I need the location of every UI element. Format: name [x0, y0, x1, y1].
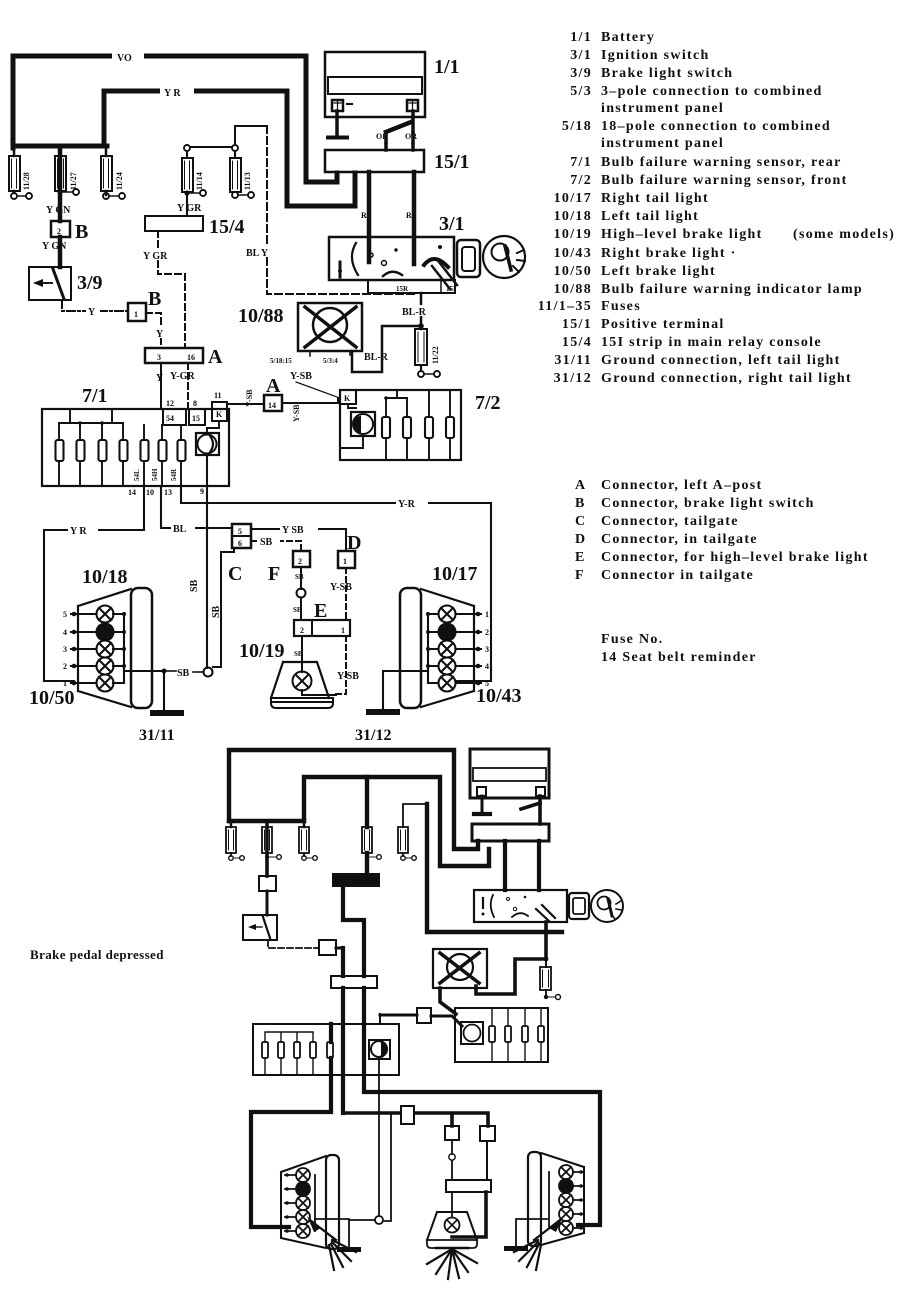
svg-text:K: K — [216, 410, 223, 419]
connector strip A — [145, 346, 223, 368]
fuse2 b — [262, 821, 281, 876]
wire Y-R long — [181, 486, 491, 681]
wire Y-GN to switch — [58, 237, 63, 267]
svg-text:OR: OR — [376, 132, 388, 141]
battery minus post — [328, 111, 347, 138]
svg-text:15/1: 15/1 — [562, 317, 592, 332]
svg-text:High–level brake light: High–level brake light — [601, 227, 763, 242]
ground2 brush 10/19 — [427, 1248, 477, 1279]
connector B (1) — [128, 288, 161, 321]
svg-text:Y R: Y R — [164, 88, 181, 99]
svg-text:instrument panel: instrument panel — [601, 136, 724, 151]
svg-text:10/19: 10/19 — [554, 227, 592, 242]
svg-text:SB: SB — [260, 537, 273, 548]
svg-text:7/2: 7/2 — [570, 173, 592, 188]
fuse 11/13 — [230, 145, 254, 198]
svg-text:10/88: 10/88 — [554, 282, 592, 297]
wire Y-SB (K to A14) — [227, 389, 264, 407]
7/1 resistors — [56, 440, 186, 461]
fuse2 a — [226, 827, 244, 860]
svg-text:Y-SB: Y-SB — [330, 582, 352, 593]
legend fuse note — [601, 632, 757, 665]
svg-text:15: 15 — [192, 414, 200, 423]
svg-text:SB: SB — [295, 573, 304, 581]
svg-text:SB: SB — [189, 579, 200, 592]
wire SB (C6 down to ground junction) — [211, 548, 234, 667]
svg-text:11/22: 11/22 — [431, 346, 440, 364]
svg-text:31/11: 31/11 — [139, 727, 175, 744]
fuse 11/27 — [55, 146, 79, 221]
svg-text:15R: 15R — [396, 285, 409, 293]
battery 1/1 — [325, 52, 460, 117]
svg-text:3–pole connection to combined: 3–pole connection to combined — [601, 84, 823, 99]
wire Y-R left to 10/18 — [44, 486, 144, 681]
fuse2 e — [398, 804, 427, 860]
svg-text:11/13: 11/13 — [243, 172, 252, 190]
svg-text:14: 14 — [268, 401, 276, 410]
svg-text:3: 3 — [157, 353, 161, 362]
wire Y-GR dashed — [142, 231, 185, 348]
ground2 right lamp — [504, 1219, 547, 1251]
svg-text:13: 13 — [164, 488, 172, 497]
connector2 C — [319, 940, 343, 976]
svg-text:Connector, tailgate: Connector, tailgate — [601, 514, 739, 529]
svg-text:(some models): (some models) — [793, 227, 895, 242]
svg-text:16: 16 — [187, 353, 195, 362]
10/17 pins and bus — [426, 610, 489, 688]
svg-text:10: 10 — [146, 488, 154, 497]
wire2 3/9 to C — [268, 940, 319, 948]
strip 15/4 — [145, 203, 245, 238]
svg-text:1: 1 — [343, 557, 347, 566]
svg-text:Left brake light: Left brake light — [601, 264, 716, 279]
svg-text:SB: SB — [294, 650, 303, 658]
svg-text:31/11: 31/11 — [554, 353, 592, 368]
tail light2 left — [281, 1155, 339, 1249]
wires2 strip to 7/1 — [343, 988, 364, 1024]
wire Y-GR below A — [170, 363, 195, 409]
wire Y-SB (A14 to 7/2) — [282, 371, 341, 422]
sensor2 7/2 — [455, 1008, 548, 1062]
svg-text:15/4: 15/4 — [209, 216, 245, 238]
svg-text:10/19: 10/19 — [239, 640, 285, 662]
wire BL-Y — [235, 126, 418, 294]
7/1 top cells 54/15/K — [163, 391, 227, 425]
brake light2 10/19 — [427, 1212, 477, 1248]
svg-text:31/12: 31/12 — [355, 727, 391, 744]
svg-text:6: 6 — [238, 539, 242, 548]
svg-text:10/17: 10/17 — [554, 191, 592, 206]
svg-text:Connector, brake light switch: Connector, brake light switch — [601, 496, 815, 511]
wire Y-SB (C5 to D) — [251, 523, 346, 551]
svg-text:Bulb failure warning sensor, f: Bulb failure warning sensor, front — [601, 173, 848, 188]
svg-text:11/1–35: 11/1–35 — [538, 299, 592, 314]
key2 — [569, 890, 623, 922]
wire BL to C — [161, 486, 232, 535]
svg-text:1: 1 — [63, 679, 67, 688]
svg-text:3/1: 3/1 — [439, 213, 465, 235]
svg-text:Brake light switch: Brake light switch — [601, 66, 733, 81]
tail light2 left bulbs — [285, 1168, 315, 1238]
svg-text:5/3:4: 5/3:4 — [323, 357, 338, 365]
svg-text:2: 2 — [63, 662, 67, 671]
svg-text:Left tail light: Left tail light — [601, 209, 699, 224]
svg-text:Ground connection, right tail: Ground connection, right tail light — [601, 371, 852, 386]
ground 31/11 — [139, 671, 184, 744]
svg-text:instrument panel: instrument panel — [601, 101, 724, 116]
svg-text:D: D — [347, 532, 361, 554]
tail light 10/18 — [29, 566, 152, 709]
svg-text:54: 54 — [166, 414, 174, 423]
ground 31/12 — [355, 671, 428, 744]
svg-text:VO: VO — [117, 53, 132, 64]
ground2 left lamp — [315, 1219, 361, 1252]
svg-text:A: A — [575, 478, 586, 493]
svg-text:Brake pedal depressed: Brake pedal depressed — [30, 947, 164, 962]
7/2 internal wiring — [384, 390, 450, 460]
brush2 left lamp — [307, 1216, 356, 1270]
wire2 Y-R equivalent — [304, 777, 489, 866]
svg-text:15I strip in main relay consol: 15I strip in main relay console — [601, 335, 822, 350]
svg-text:3/9: 3/9 — [570, 66, 592, 81]
svg-text:OR: OR — [405, 132, 417, 141]
connector2 B — [259, 853, 276, 915]
svg-text:15I: 15I — [446, 285, 456, 293]
10/18 pins and bus — [63, 610, 126, 688]
wire Y (3/9 to B1) — [62, 300, 128, 318]
legend connector list — [575, 478, 869, 583]
brake light switch 3/9 — [29, 267, 103, 300]
svg-text:B: B — [75, 221, 88, 243]
svg-text:C: C — [228, 563, 242, 585]
svg-text:Ignition switch: Ignition switch — [601, 48, 710, 63]
wire2 SB relay — [349, 1059, 391, 1224]
svg-text:1: 1 — [341, 626, 345, 635]
fuse2 11/22 — [540, 959, 561, 1000]
7/1 bottom pin labels — [128, 468, 204, 497]
svg-text:10/18: 10/18 — [554, 209, 592, 224]
svg-text:Y: Y — [88, 307, 96, 318]
svg-text:14: 14 — [128, 488, 136, 497]
svg-text:10/50: 10/50 — [554, 264, 592, 279]
strip2 E — [446, 1180, 491, 1237]
svg-text:Y R: Y R — [70, 526, 87, 537]
svg-text:7/2: 7/2 — [475, 392, 501, 414]
svg-text:Y-SB: Y-SB — [337, 671, 359, 682]
7/1 relay — [196, 421, 219, 455]
svg-text:3: 3 — [485, 645, 489, 654]
svg-text:Connector, left A–post: Connector, left A–post — [601, 478, 762, 493]
svg-text:Y-SB: Y-SB — [245, 389, 254, 407]
svg-text:1: 1 — [485, 610, 489, 619]
svg-text:BL: BL — [173, 524, 187, 535]
svg-text:10/50: 10/50 — [29, 687, 75, 709]
svg-text:2: 2 — [485, 628, 489, 637]
svg-text:Bulb failure warning indicator: Bulb failure warning indicator lamp — [601, 282, 863, 297]
fuse2 d — [362, 777, 381, 874]
wire SB (F to E) — [293, 567, 306, 620]
svg-text:Y: Y — [156, 373, 164, 384]
wire Y-SB (below E) dashed — [333, 636, 359, 694]
wire SB (E to 10/19) — [294, 636, 303, 672]
svg-text:Connector, in tailgate: Connector, in tailgate — [601, 532, 758, 547]
high-level brake light 10/19 — [239, 640, 336, 708]
10/18 bulbs — [97, 606, 114, 692]
tail light2 right — [528, 1152, 584, 1246]
svg-text:Y GN: Y GN — [42, 241, 67, 252]
svg-text:SB: SB — [211, 605, 222, 618]
wire2 left lamp feed — [251, 1024, 331, 1227]
svg-text:1/1: 1/1 — [434, 56, 460, 78]
svg-text:R: R — [406, 211, 412, 220]
svg-text:K: K — [344, 394, 351, 403]
svg-text:54R: 54R — [170, 468, 178, 481]
battery plus cable OR — [376, 111, 417, 150]
svg-text:Positive terminal: Positive terminal — [601, 317, 725, 332]
svg-text:Y: Y — [156, 329, 164, 340]
wire VO — [13, 50, 337, 182]
tail light 10/17 — [400, 563, 522, 708]
svg-text:11/24: 11/24 — [115, 172, 124, 190]
svg-text:Battery: Battery — [601, 30, 655, 45]
svg-text:54L: 54L — [133, 469, 141, 481]
connector2 F — [445, 1126, 459, 1180]
svg-text:Y GR: Y GR — [143, 251, 168, 262]
wire SB ground 10/18 — [124, 668, 203, 679]
svg-text:SB: SB — [293, 606, 302, 614]
svg-text:Y GN: Y GN — [46, 205, 71, 216]
wires2 R to switch — [505, 841, 539, 890]
wire Y below A — [156, 363, 164, 409]
svg-text:7/1: 7/1 — [570, 155, 592, 170]
svg-text:10/43: 10/43 — [476, 685, 522, 707]
svg-text:14 Seat belt reminder: 14 Seat belt reminder — [601, 650, 757, 665]
svg-text:5: 5 — [63, 610, 67, 619]
wire BL-R loop to 10/88 — [352, 326, 421, 372]
wire SB from relay 9 — [189, 455, 213, 677]
wire BL-R — [400, 293, 436, 329]
key symbol — [457, 236, 525, 278]
svg-text:Y-SB: Y-SB — [290, 371, 312, 382]
10/17 bulbs — [439, 606, 456, 692]
svg-text:BL-R: BL-R — [364, 352, 389, 363]
svg-text:5: 5 — [238, 527, 242, 536]
svg-text:1/1: 1/1 — [570, 30, 592, 45]
fuse 11/28 — [9, 146, 32, 199]
svg-text:10/43: 10/43 — [554, 246, 592, 261]
7/2 relay — [340, 404, 375, 448]
lamp2 10/88 — [433, 949, 487, 1014]
svg-text:10/88: 10/88 — [238, 305, 284, 327]
connector strip E — [294, 600, 350, 636]
svg-text:2: 2 — [298, 557, 302, 566]
svg-text:5/3: 5/3 — [570, 84, 592, 99]
wire Y-SB (D down) dashed — [330, 568, 352, 620]
connector2 A black bar — [332, 873, 380, 976]
svg-text:10/18: 10/18 — [82, 566, 128, 588]
svg-text:BL Y: BL Y — [246, 248, 269, 259]
svg-text:18–pole connection to combined: 18–pole connection to combined — [601, 119, 831, 134]
svg-text:A: A — [266, 375, 281, 397]
svg-text:2: 2 — [57, 227, 61, 236]
svg-text:11: 11 — [214, 391, 222, 400]
sensor 7/1 box — [42, 385, 229, 486]
positive terminal 15/1 — [325, 150, 470, 173]
fuse2 c — [299, 827, 317, 860]
svg-text:Y-GR: Y-GR — [170, 371, 195, 382]
svg-text:15/1: 15/1 — [434, 151, 470, 173]
indicator lamp 10/88 — [238, 303, 362, 365]
svg-text:2: 2 — [300, 626, 304, 635]
strip2 15/4 — [331, 976, 377, 988]
svg-text:3/1: 3/1 — [570, 48, 592, 63]
svg-text:Y SB: Y SB — [282, 525, 304, 536]
sensor 7/2 box — [340, 390, 501, 460]
wire2 fuse bus — [229, 819, 304, 823]
svg-text:15/4: 15/4 — [562, 335, 592, 350]
7/1 internal wiring — [59, 409, 181, 486]
wire Y (B1 to A) — [146, 313, 165, 348]
switch2 3/1 — [474, 890, 567, 922]
connector2 D — [480, 1126, 495, 1180]
svg-text:Bulb failure warning sensor, r: Bulb failure warning sensor, rear — [601, 155, 842, 170]
7/2 resistors — [382, 417, 454, 438]
svg-text:8: 8 — [193, 399, 197, 408]
wire Y-R (feed) — [104, 85, 355, 206]
svg-text:Fuse No.: Fuse No. — [601, 632, 664, 647]
svg-text:12: 12 — [166, 399, 174, 408]
svg-text:3/9: 3/9 — [77, 272, 103, 294]
wire2 VO equivalent — [229, 750, 478, 849]
wire2 through resistor to right loop — [341, 1024, 345, 1113]
svg-text:B: B — [148, 288, 161, 310]
switch2 3/9 — [243, 915, 277, 940]
battery2 — [470, 749, 549, 824]
legend component list — [538, 30, 895, 386]
wire2 D/F feed — [343, 1113, 488, 1126]
svg-text:Fuses: Fuses — [601, 299, 641, 314]
svg-text:5/18:15: 5/18:15 — [270, 357, 292, 365]
svg-text:SB: SB — [177, 668, 190, 679]
fuse 11/14 — [182, 145, 206, 216]
connector B (2) — [51, 221, 88, 243]
connector2 A14 — [380, 1008, 462, 1026]
svg-text:D: D — [575, 532, 586, 547]
svg-text:E: E — [575, 550, 586, 565]
connector2 on feed — [401, 1106, 414, 1124]
wire fuse 11/14-11/13 top link — [190, 146, 232, 148]
svg-text:5/18: 5/18 — [562, 119, 592, 134]
fuse 11/24 — [101, 146, 125, 199]
brush2 right lamp — [514, 1216, 563, 1270]
svg-text:Connector in tailgate: Connector in tailgate — [601, 568, 754, 583]
svg-text:R: R — [361, 211, 367, 220]
tail light2 right bulbs — [549, 1165, 584, 1235]
svg-text:54H: 54H — [151, 468, 159, 481]
svg-text:Y GR: Y GR — [177, 203, 202, 214]
sensor2 7/1 — [253, 1024, 399, 1075]
svg-text:10/17: 10/17 — [432, 563, 478, 585]
wire2 BL-Y equivalent — [427, 804, 562, 932]
svg-text:Ground connection, left tail l: Ground connection, left tail light — [601, 353, 841, 368]
svg-text:Right tail light: Right tail light — [601, 191, 709, 206]
fuse 11/22 — [415, 329, 440, 377]
wire fuse bus — [13, 144, 107, 149]
terminal2 15/1 — [472, 824, 549, 841]
svg-text:Y-R: Y-R — [398, 499, 416, 510]
svg-text:C: C — [575, 514, 586, 529]
svg-text:3: 3 — [63, 645, 67, 654]
wire2 switch to fuse 11/22 — [476, 922, 548, 994]
connector A (14) seat belt — [264, 375, 282, 411]
svg-text:Connector, for high–level brak: Connector, for high–level brake light — [601, 550, 869, 565]
connector F (2) — [268, 551, 310, 585]
svg-text:Y-SB: Y-SB — [292, 404, 301, 422]
strip 15R/15I — [368, 280, 456, 293]
svg-text:BL-R: BL-R — [402, 307, 427, 318]
svg-text:11/28: 11/28 — [22, 172, 31, 190]
svg-text:E: E — [314, 600, 327, 622]
svg-text:1: 1 — [134, 310, 138, 319]
connector D (1) — [338, 532, 361, 568]
svg-text:7/1: 7/1 — [82, 385, 108, 407]
svg-text:B: B — [575, 496, 586, 511]
svg-text:4: 4 — [485, 662, 489, 671]
svg-text:5: 5 — [485, 679, 489, 688]
svg-text:F: F — [268, 563, 280, 585]
svg-text:31/12: 31/12 — [554, 371, 592, 386]
wire SB (C6 to F) dashed — [251, 535, 301, 551]
svg-text:F: F — [575, 568, 585, 583]
ignition switch 3/1 — [329, 213, 465, 289]
svg-text:9: 9 — [200, 487, 204, 496]
svg-text:Right brake light ·: Right brake light · — [601, 246, 737, 261]
connector C (5/6) — [228, 524, 251, 585]
wires R to ignition — [361, 172, 414, 264]
svg-text:11/27: 11/27 — [69, 172, 78, 190]
svg-text:11/14: 11/14 — [195, 172, 204, 190]
svg-text:A: A — [208, 346, 223, 368]
svg-text:4: 4 — [63, 628, 67, 637]
